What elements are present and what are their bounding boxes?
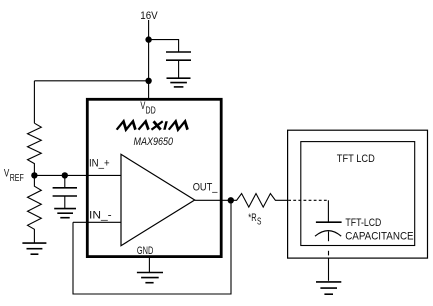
svg-text:GND: GND bbox=[137, 245, 153, 257]
svg-text:DD: DD bbox=[146, 105, 156, 117]
svg-text:TFT-LCD: TFT-LCD bbox=[345, 217, 381, 229]
svg-text:OUT_: OUT_ bbox=[193, 182, 218, 194]
svg-text:CAPACITANCE: CAPACITANCE bbox=[345, 231, 413, 243]
svg-text:S: S bbox=[257, 216, 261, 228]
svg-text:16V: 16V bbox=[140, 10, 158, 22]
svg-text:REF: REF bbox=[10, 172, 24, 184]
svg-text:*R: *R bbox=[248, 212, 256, 224]
svg-text:MAX9650: MAX9650 bbox=[134, 136, 174, 148]
svg-text:TFT LCD: TFT LCD bbox=[337, 153, 375, 165]
svg-text:IN_+: IN_+ bbox=[89, 158, 110, 170]
svg-text:IN_-: IN_- bbox=[89, 210, 112, 222]
